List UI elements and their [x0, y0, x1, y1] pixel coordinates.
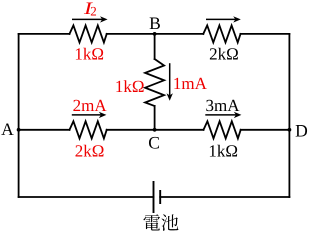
resistor 2kOhm top-right: [203, 25, 240, 42]
wire vertical resistor to C: [154, 106, 156, 130]
battery short plate (negative): [159, 190, 161, 204]
wire B to vertical resistor: [154, 34, 156, 59]
svg-text:2kΩ: 2kΩ: [75, 141, 105, 160]
current arrow 3mA over middle-right resistor: [205, 112, 241, 118]
label I2: [83, 0, 97, 19]
node A junction dot: [17, 128, 21, 132]
wire middle row A-left: [19, 129, 70, 131]
svg-text:A: A: [1, 119, 14, 139]
battery long plate (positive): [153, 181, 155, 213]
svg-text:B: B: [149, 13, 161, 33]
svg-text:2: 2: [90, 4, 97, 19]
resistor 1kOhm top-left: [70, 25, 107, 42]
wire right vertical rail: [288, 34, 290, 197]
node B junction dot: [153, 32, 157, 36]
wire top-right segment: [241, 33, 290, 35]
current arrow over top-right resistor: [206, 16, 241, 22]
current arrow 2mA over middle-left resistor: [72, 112, 107, 118]
wire bottom-left segment: [19, 196, 154, 198]
svg-text:1kΩ: 1kΩ: [208, 141, 238, 160]
svg-text:D: D: [295, 121, 308, 141]
resistor 1kOhm vertical B-C: [145, 59, 164, 106]
svg-text:C: C: [148, 133, 160, 153]
node D junction dot: [288, 128, 292, 132]
svg-text:3mA: 3mA: [206, 96, 241, 115]
wire top-middle segment: [107, 33, 204, 35]
wire top-left segment: [19, 33, 70, 35]
wire middle row center: [107, 129, 204, 131]
svg-text:2kΩ: 2kΩ: [209, 44, 239, 63]
resistor 1kOhm middle-right: [204, 121, 241, 138]
svg-text:1mA: 1mA: [173, 74, 208, 93]
resistor 2kOhm middle-left: [70, 121, 107, 138]
current arrow I2 over top-left resistor: [72, 16, 108, 22]
current arrow 1mA beside vertical resistor: [167, 63, 173, 101]
wire bottom-right segment: [160, 196, 289, 198]
node C junction dot: [153, 128, 157, 132]
svg-text:1kΩ: 1kΩ: [74, 44, 104, 63]
svg-text:2mA: 2mA: [73, 96, 108, 115]
battery label (denchi): [143, 214, 178, 231]
svg-text:1kΩ: 1kΩ: [115, 77, 145, 96]
wire middle row to D: [241, 129, 290, 131]
wire left vertical rail: [18, 34, 20, 197]
